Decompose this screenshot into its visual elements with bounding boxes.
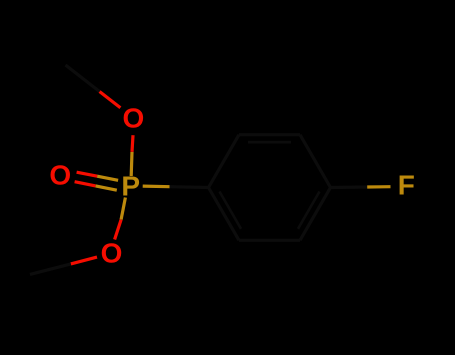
wire: ring bond C5-C6 — [239, 239, 300, 242]
wire: ring bond C1-C2 — [209, 135, 240, 188]
wire: bond C4-F, carbon half — [331, 185, 368, 189]
wire: P=O double bond upper line — [77, 172, 98, 176]
svg-text:O: O — [49, 160, 71, 191]
svg-text:O: O — [101, 238, 123, 269]
wire: bond P-C1, carbon half — [170, 185, 209, 189]
wire: aromatic inner bond — [298, 192, 320, 229]
svg-text:F: F — [398, 170, 415, 201]
wire: bond P-O(top), gold half — [130, 152, 134, 176]
wire: bond P-O(bottom), gold half — [121, 198, 125, 220]
svg-text:O: O — [123, 102, 145, 133]
wire: bond O(top)-CH3, red half — [100, 92, 121, 108]
wire: ring bond C6-C1 — [209, 188, 240, 241]
wire: bond P-O(top), red half — [132, 135, 133, 152]
wire: bond P-C1, gold half — [143, 185, 170, 189]
wire: bond O(bottom)-CH3, carbon half — [30, 264, 71, 275]
wire: bond P-O(bottom), red half — [115, 220, 122, 240]
wire: bond O(bottom)-CH3, red half — [71, 257, 97, 264]
wire: bond C4-F, gold half — [367, 185, 390, 189]
wire: aromatic inner bond — [220, 192, 242, 229]
wire: ring bond C2-C3 — [239, 133, 300, 136]
wire: P=O double bond lower line — [75, 182, 96, 186]
wire: ring bond C4-C5 — [300, 188, 331, 241]
wire: bond O(top)-CH3, carbon half — [66, 65, 100, 92]
wire: aromatic inner bond — [248, 141, 291, 144]
wire: ring bond C3-C4 — [300, 135, 331, 188]
svg-text:P: P — [121, 171, 140, 202]
